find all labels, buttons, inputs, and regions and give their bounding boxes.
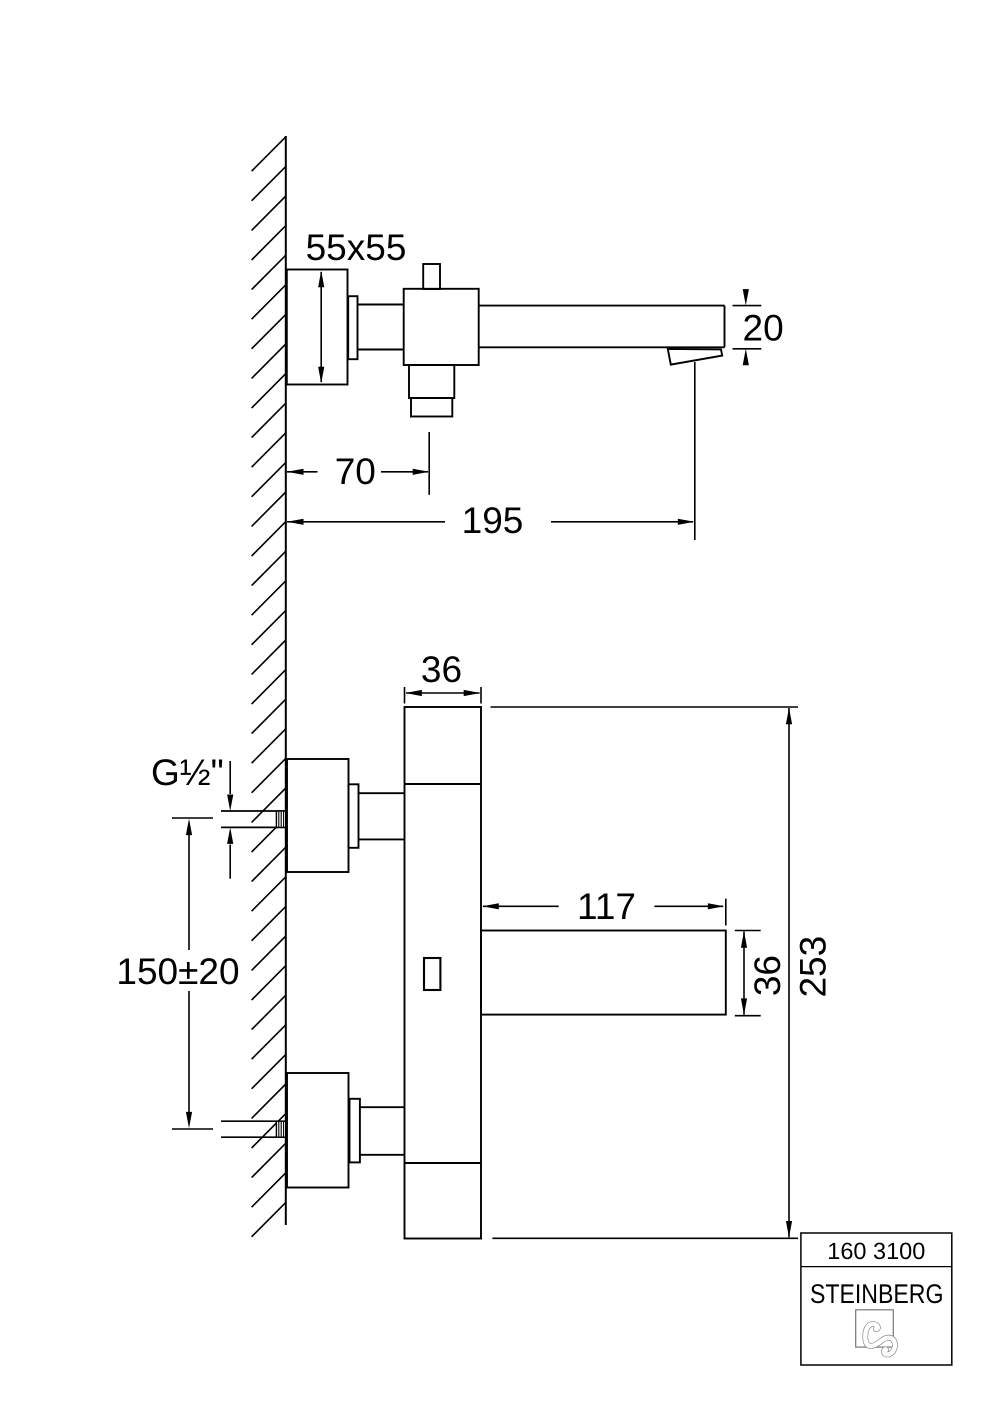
angled outlet under spout tip xyxy=(668,349,722,365)
body bottom section line xyxy=(405,1162,482,1164)
svg-text:160 3100: 160 3100 xyxy=(827,1238,925,1264)
svg-text:195: 195 xyxy=(462,500,524,541)
dimension 253 (overall height) xyxy=(491,707,834,1238)
title block frame xyxy=(801,1233,952,1365)
dimension 150±20 (supply spacing) xyxy=(116,818,239,1129)
extension line for 70 xyxy=(428,432,430,495)
dimension 55x55 (plate size) xyxy=(306,227,407,383)
dimension 36 (spout height) xyxy=(735,931,788,1016)
wall plate (top view, 55x55 escutcheon) xyxy=(287,270,348,385)
body top section line xyxy=(405,783,482,785)
dimension 36 (body width) xyxy=(405,649,482,704)
aerator holder step 2 xyxy=(411,398,452,417)
svg-text:55x55: 55x55 xyxy=(306,227,407,268)
svg-text:70: 70 xyxy=(335,451,376,492)
upper threaded nipple xyxy=(276,811,285,827)
upper cartridge wall plate xyxy=(287,759,349,872)
title block divider xyxy=(801,1266,952,1268)
svg-text:STEINBERG: STEINBERG xyxy=(810,1279,944,1309)
extension line from outlet down to 195 dimension xyxy=(694,362,696,540)
valve body (top view) xyxy=(404,289,479,365)
svg-text:G½": G½" xyxy=(151,752,224,793)
svg-text:150±20: 150±20 xyxy=(116,951,239,992)
svg-text:36: 36 xyxy=(421,649,462,690)
button on body xyxy=(424,958,440,990)
knob on top of valve body xyxy=(423,264,440,289)
lower cartridge collar xyxy=(350,1099,360,1163)
upper G1/2 supply pipe xyxy=(221,811,287,827)
dimension 20 (spout height) xyxy=(733,289,784,365)
lower threaded nipple xyxy=(276,1121,285,1137)
aerator holder step 1 xyxy=(409,365,454,398)
dimension G1/2" (supply thread) xyxy=(151,752,233,879)
spout (top view) xyxy=(479,305,725,307)
wall face line xyxy=(285,136,287,1225)
dimension 70 (wall to aerator center) xyxy=(287,432,429,495)
spout (front view) xyxy=(481,931,726,1015)
svg-text:36: 36 xyxy=(747,955,788,996)
collar (top view) xyxy=(348,296,357,359)
dimension 195 (wall to outlet) xyxy=(287,362,695,541)
svg-text:117: 117 xyxy=(577,886,636,927)
lower G1/2 supply pipe xyxy=(221,1121,287,1137)
lower cartridge wall plate xyxy=(287,1073,349,1188)
svg-text:20: 20 xyxy=(743,308,784,349)
lower cartridge pipe xyxy=(360,1106,405,1108)
logo squiggle xyxy=(865,1324,895,1355)
mixer body (front bar) xyxy=(405,707,482,1239)
extension line for 117 xyxy=(725,899,727,926)
upper cartridge collar xyxy=(349,784,359,848)
wall hatching xyxy=(252,137,286,1237)
svg-text:253: 253 xyxy=(792,936,833,998)
upper cartridge pipe xyxy=(359,792,405,794)
dimension 117 (spout length) xyxy=(482,886,726,927)
connecting pipe (top view) xyxy=(358,304,404,306)
logo square xyxy=(856,1310,894,1347)
